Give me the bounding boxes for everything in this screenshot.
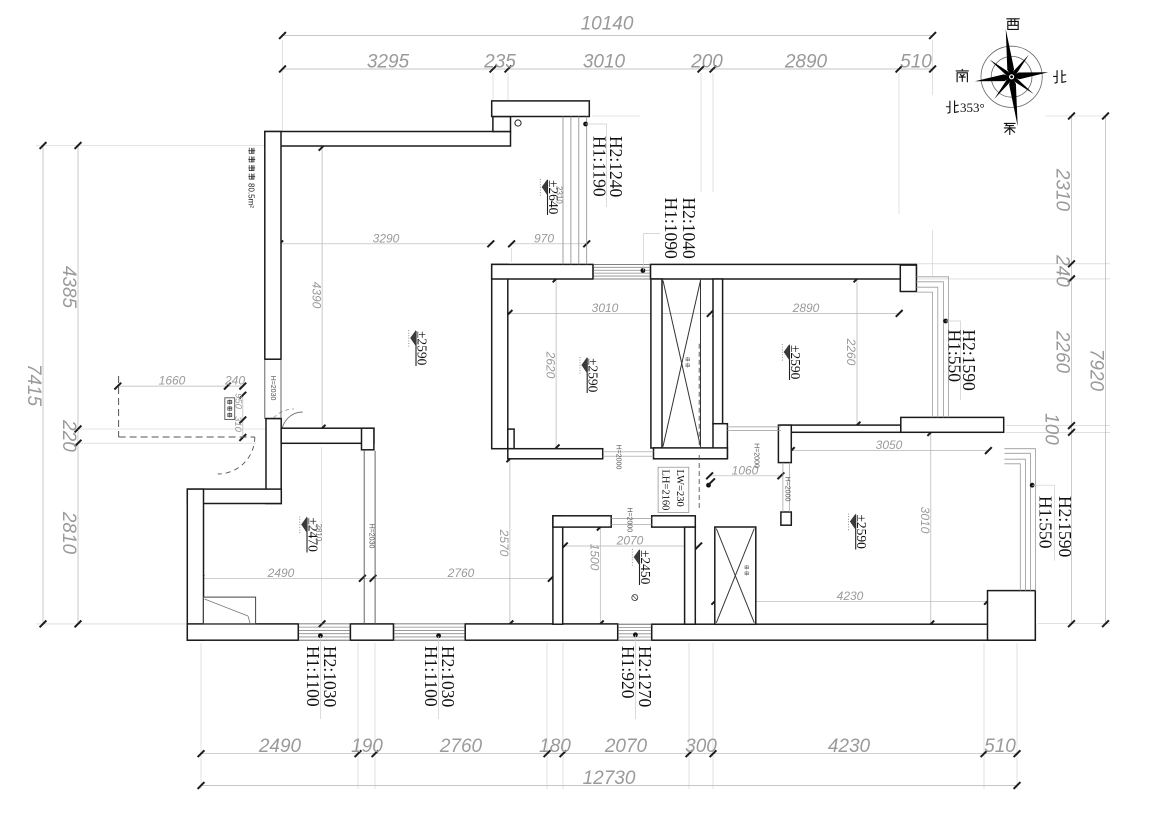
level mark ±2640: [540, 179, 563, 215]
dashed porch outline: [118, 376, 120, 437]
svg-text:970: 970: [534, 231, 554, 245]
door dining entry: [782, 463, 784, 512]
wall north band west: [492, 264, 593, 279]
wall bathroom right wall: [685, 527, 696, 624]
svg-text:240: 240: [1052, 254, 1073, 287]
svg-text:2070: 2070: [604, 736, 648, 757]
wall bathroom top band w: [553, 516, 611, 527]
level mark ±2590: [409, 330, 430, 366]
svg-text:H1:1100: H1:1100: [303, 646, 323, 707]
svg-text:10140: 10140: [581, 14, 634, 35]
entry door swing arc small: [282, 412, 303, 433]
leader window north: [644, 234, 660, 271]
leader window bathroom: [634, 635, 636, 719]
svg-text:H2:1040: H2:1040: [679, 198, 699, 260]
svg-text:2810: 2810: [314, 524, 323, 542]
small circle in bay: [515, 120, 521, 126]
svg-text:H1:1100: H1:1100: [421, 646, 441, 707]
svg-text:220: 220: [58, 419, 79, 452]
wall mid bedroom step: [508, 429, 514, 449]
dim: [321, 147, 323, 428]
svg-text:H2:1590: H2:1590: [1055, 496, 1075, 558]
extension lines bottom: [200, 643, 202, 789]
dim: [118, 385, 243, 387]
wall shaft left wall: [651, 279, 662, 448]
window: [593, 266, 651, 268]
svg-text:1500: 1500: [588, 544, 602, 571]
wall mid bedroom left wall: [492, 264, 508, 448]
svg-text:H=2030: H=2030: [367, 524, 374, 549]
svg-text:100: 100: [1041, 413, 1062, 445]
wall south band west: [187, 624, 298, 640]
electric box 强电箱: [225, 398, 235, 420]
wall dining west pier: [781, 512, 791, 525]
wall bedroom2 left wall: [187, 489, 203, 640]
svg-text:4230: 4230: [828, 736, 871, 757]
svg-text:80.5m²: 80.5m²: [247, 183, 256, 208]
dim: [856, 279, 858, 425]
dim 2490 / 2760 interior: [201, 577, 552, 579]
dim: [283, 68, 933, 70]
door right bedroom: [727, 426, 781, 428]
wall bathroom top band e: [652, 516, 696, 527]
compass rose: [969, 25, 1054, 131]
elevator shaft cross: [700, 279, 702, 448]
wall shaft bottom band: [654, 448, 728, 459]
wall living top band: [265, 132, 511, 147]
svg-text:3295: 3295: [367, 52, 410, 73]
dim: [512, 243, 587, 245]
svg-text:H=2000: H=2000: [615, 445, 622, 470]
wall entry jamb wall: [266, 419, 281, 504]
svg-text:240: 240: [224, 374, 245, 388]
svg-text:±2590: ±2590: [586, 358, 601, 393]
svg-text:1660: 1660: [159, 374, 186, 388]
svg-text:180: 180: [539, 736, 571, 757]
dim: [1105, 116, 1107, 624]
svg-text:H1:550: H1:550: [945, 330, 965, 383]
door bathroom: [611, 518, 652, 520]
dim: [77, 146, 79, 624]
svg-text:4390: 4390: [309, 282, 323, 309]
leader window south1: [319, 636, 321, 719]
dim: [555, 279, 557, 448]
dim: [1071, 116, 1073, 624]
building area label: [247, 148, 256, 208]
leader window bedroom east: [946, 321, 961, 400]
svg-text:3010: 3010: [583, 52, 626, 73]
svg-text:2810: 2810: [58, 511, 79, 555]
window: [618, 626, 652, 628]
level mark ±2590: [849, 514, 870, 550]
svg-text:H1:920: H1:920: [618, 646, 638, 699]
svg-text:235: 235: [483, 52, 516, 73]
wall bedroom south band thick: [901, 417, 1004, 432]
level mark ±2590: [782, 344, 803, 380]
svg-text:3290: 3290: [373, 231, 400, 245]
level mark ±2450: [632, 549, 653, 585]
door mid bedroom: [603, 451, 654, 453]
dim: [42, 146, 44, 624]
wall bay left jamb: [493, 117, 511, 132]
dim: [930, 433, 932, 625]
svg-text:2260: 2260: [1052, 330, 1073, 374]
leader window south2: [438, 636, 440, 719]
wall bedroom east corner: [900, 265, 916, 291]
svg-text:353°: 353°: [960, 100, 985, 115]
level mark ±2590: [580, 357, 601, 393]
svg-text:2890: 2890: [784, 52, 828, 73]
window: [394, 626, 466, 628]
svg-text:H1:1190: H1:1190: [589, 136, 609, 197]
wall partition band: [187, 489, 281, 503]
dim 950 / 310 vertical: [242, 395, 244, 437]
svg-text:12730: 12730: [583, 768, 636, 789]
svg-text:±2450: ±2450: [638, 550, 653, 585]
compass labels: [1007, 19, 1019, 30]
wall hall pier: [362, 428, 374, 450]
wall living left wall: [265, 132, 281, 360]
level mark ±2470: [300, 517, 323, 553]
svg-text:H1:550: H1:550: [1036, 496, 1056, 549]
dim: [716, 312, 899, 314]
dim: [201, 785, 1017, 787]
svg-text:2570: 2570: [497, 529, 511, 557]
svg-text:4385: 4385: [58, 266, 79, 309]
svg-text:3010: 3010: [592, 301, 619, 315]
svg-text:2890: 2890: [792, 301, 820, 315]
svg-text:H=2000: H=2000: [626, 507, 633, 532]
wall dining nw pier: [778, 425, 791, 463]
dim: [715, 600, 988, 602]
dim: [283, 35, 933, 37]
extension lines right: [918, 263, 1110, 265]
svg-text:190: 190: [351, 736, 383, 757]
leader window dining east: [1032, 485, 1054, 561]
svg-text:H=2000: H=2000: [753, 443, 760, 468]
svg-text:2760: 2760: [447, 566, 475, 580]
svg-text:4230: 4230: [837, 589, 864, 603]
wall south mid band: [465, 624, 618, 640]
wall dining se pier: [988, 591, 1036, 641]
dim: [201, 753, 1017, 755]
floor drain: [632, 595, 638, 601]
svg-text:510: 510: [984, 736, 1016, 757]
entry door swing arc dashed: [218, 437, 255, 474]
wall shaft right notch: [713, 424, 727, 459]
svg-text:300: 300: [685, 736, 717, 757]
dim: [509, 312, 710, 314]
window bay east: [562, 117, 564, 265]
wall shaft right wall: [713, 279, 723, 424]
window dining east bay: [1004, 449, 1035, 591]
svg-text:510: 510: [900, 52, 932, 73]
svg-text:LH=2160: LH=2160: [660, 470, 671, 511]
svg-text:±2590: ±2590: [415, 331, 430, 366]
dim: [599, 527, 601, 624]
svg-text:2310: 2310: [1052, 168, 1073, 212]
svg-text:200: 200: [690, 52, 723, 73]
svg-text:2070: 2070: [616, 534, 644, 548]
svg-text:7415: 7415: [23, 364, 44, 407]
svg-text:±2590: ±2590: [788, 345, 803, 380]
wall hallway band: [281, 428, 374, 443]
wall bedroom south band: [781, 425, 901, 432]
wall south pier: [350, 624, 393, 640]
svg-text:2620: 2620: [543, 351, 557, 379]
window: [298, 626, 350, 628]
svg-text:3050: 3050: [876, 438, 903, 452]
opening H2030 jambs: [363, 451, 365, 624]
svg-text:±2590: ±2590: [854, 515, 869, 550]
leader window bay: [586, 124, 607, 207]
svg-text:2760: 2760: [439, 736, 483, 757]
wall bay hat: [492, 101, 590, 117]
svg-text:H=2030: H=2030: [269, 376, 276, 401]
wall north band east: [651, 264, 917, 279]
LH/LW label box: [658, 467, 689, 512]
dim: [791, 450, 988, 452]
svg-text:3010: 3010: [918, 507, 932, 534]
wall mid bedroom bottom band: [508, 449, 603, 459]
extension lines left: [36, 145, 264, 147]
svg-text:LW=230: LW=230: [674, 470, 685, 507]
desk rect bedroom2: [204, 597, 256, 624]
extension lines top: [282, 40, 284, 131]
dim: [280, 243, 491, 245]
wall bathroom left wall: [553, 516, 563, 624]
svg-text:H=2000: H=2000: [784, 477, 791, 502]
dim: [564, 545, 698, 547]
dim: [509, 459, 511, 624]
svg-text:2490: 2490: [258, 736, 302, 757]
window living west (H2030 opening): [264, 359, 266, 419]
svg-text:7920: 7920: [1086, 349, 1107, 392]
wall south east band: [652, 624, 1036, 640]
svg-text:2310: 2310: [555, 186, 564, 204]
svg-text:2260: 2260: [844, 338, 858, 366]
stair box cross: [715, 527, 756, 624]
svg-text:H1:1090: H1:1090: [661, 198, 681, 260]
window bedroom east bay: [916, 277, 948, 418]
svg-text:2490: 2490: [267, 566, 295, 580]
dim: [710, 475, 781, 477]
